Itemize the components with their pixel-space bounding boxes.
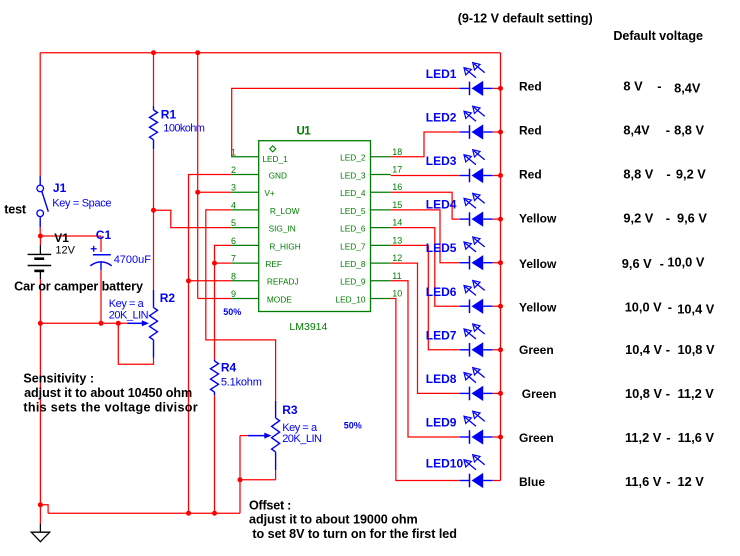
- junction R1-R2 / SIG_IN: [151, 208, 156, 213]
- label J1: [53, 181, 67, 195]
- U1 pin 14 stub: [371, 227, 391, 229]
- svg-text:Red: Red: [519, 80, 542, 94]
- label R3: [282, 403, 298, 417]
- svg-text:SIG_IN: SIG_IN: [269, 224, 296, 234]
- label Sensitivity line2: [24, 386, 192, 400]
- LED10: [460, 455, 493, 488]
- wire pin12 to LED8: [391, 263, 460, 393]
- label voltage row 5 high: [667, 254, 704, 269]
- svg-text:-: -: [666, 123, 670, 138]
- LED2: [460, 106, 493, 139]
- label voltage row 10 low: [625, 474, 662, 489]
- label voltage row 3 low: [623, 167, 653, 182]
- label color row 6: [519, 301, 557, 315]
- junction top rail / R1 top: [151, 50, 156, 55]
- svg-text:LED_8: LED_8: [340, 259, 366, 269]
- label LED6: [426, 285, 457, 299]
- ground: [31, 524, 49, 542]
- svg-text:Car or camper battery: Car or camper battery: [14, 280, 143, 294]
- wire V+ to pin3: [198, 191, 232, 193]
- label voltage row 10 high: [678, 474, 705, 489]
- svg-text:-: -: [657, 79, 661, 94]
- wire R_HIGH to REF: [215, 245, 232, 263]
- wire V+ vertical: [197, 53, 199, 299]
- wire left rail upper (to J1): [39, 53, 41, 176]
- junction REF node: [212, 261, 217, 266]
- svg-text:LED7: LED7: [426, 328, 457, 342]
- svg-text:LED4: LED4: [426, 198, 457, 212]
- svg-text:10,0 V: 10,0 V: [625, 300, 662, 315]
- pin label R_LOW: [270, 206, 300, 216]
- junction left rail / ground: [38, 502, 43, 507]
- svg-text:9: 9: [231, 289, 236, 299]
- label Offset line2: [249, 513, 418, 527]
- LED9: [460, 411, 493, 444]
- label LED2: [426, 111, 457, 125]
- pin label REF: [265, 259, 282, 269]
- pin label LED_7: [340, 241, 366, 251]
- junction rail / LED4: [498, 217, 503, 222]
- svg-text:Offset :: Offset :: [249, 499, 291, 513]
- svg-text:2: 2: [231, 165, 236, 175]
- svg-text:this sets the voltage divisor: this sets the voltage divisor: [23, 401, 198, 415]
- svg-text:LED8: LED8: [426, 372, 457, 386]
- pin number 1: [231, 147, 236, 157]
- pin label LED_4: [340, 188, 366, 198]
- label 4700uF: [114, 254, 152, 266]
- svg-text:LED3: LED3: [426, 154, 457, 168]
- svg-text:8: 8: [231, 271, 236, 281]
- U1 pin 15 stub: [371, 209, 391, 211]
- label R3 50%: [344, 421, 362, 431]
- junction top rail / V+ branch: [195, 50, 200, 55]
- label test: [4, 203, 27, 217]
- label LED1: [426, 67, 457, 81]
- svg-text:-: -: [666, 474, 670, 489]
- svg-text:100kohm: 100kohm: [163, 123, 204, 135]
- svg-text:6: 6: [231, 236, 236, 246]
- svg-text:8,4V: 8,4V: [674, 81, 701, 96]
- U1 pin 10 stub: [371, 298, 391, 300]
- label color row 2: [519, 124, 542, 138]
- svg-text:-: -: [666, 430, 670, 445]
- wire R2 bottom loop: [118, 323, 153, 364]
- U1 pin 9 stub: [231, 298, 259, 300]
- label R1: [161, 107, 177, 121]
- wire LED10 to rail: [493, 480, 501, 482]
- wire pin15 to LED5: [391, 210, 460, 263]
- junction rail / LED8: [498, 391, 503, 396]
- wire bottom jog: [40, 505, 48, 513]
- label LM3914: [289, 321, 327, 333]
- junction rail / LED5: [498, 260, 503, 265]
- label LED8: [426, 372, 457, 386]
- label voltage row 4 high: [677, 211, 707, 226]
- svg-text:Green: Green: [519, 431, 554, 445]
- svg-text:11: 11: [392, 271, 401, 281]
- wire LED5 to rail: [493, 262, 501, 264]
- wire LED2 to rail: [493, 131, 501, 133]
- wire divider horizontal: [40, 322, 130, 324]
- svg-text:10,8 V: 10,8 V: [678, 342, 715, 357]
- U1 pin 1 stub: [231, 156, 259, 158]
- label Offset line1: [249, 499, 291, 513]
- svg-text:13: 13: [392, 235, 402, 245]
- label 12V: [55, 244, 75, 256]
- svg-text:8,8 V: 8,8 V: [674, 123, 704, 138]
- svg-text:LED_5: LED_5: [340, 206, 366, 216]
- label Sensitivity line1: [23, 372, 94, 386]
- LED6: [460, 280, 493, 314]
- svg-text:11,6 V: 11,6 V: [625, 474, 662, 489]
- wire battery node to C1: [40, 235, 101, 237]
- op-amp U1 body: [259, 141, 371, 312]
- wire ground stub: [39, 505, 41, 524]
- wire LED6 to rail: [493, 305, 501, 307]
- label voltage row 7 high: [678, 342, 715, 357]
- label V1: [54, 231, 69, 245]
- svg-text:LED5: LED5: [426, 241, 457, 255]
- label color row 8: [522, 387, 557, 401]
- svg-text:R1: R1: [161, 107, 177, 121]
- U1 pin 4 stub: [231, 209, 259, 211]
- label LED5: [426, 241, 457, 255]
- wire top power rail: [40, 52, 500, 54]
- pin label SIG_IN: [269, 224, 296, 234]
- wire LED9 to rail: [493, 436, 501, 438]
- svg-text:Blue: Blue: [519, 475, 545, 489]
- svg-text:LED_7: LED_7: [340, 241, 366, 251]
- junction GND / pin8: [186, 278, 191, 283]
- resistor R4: [211, 360, 219, 396]
- pin label LED_2: [340, 153, 366, 163]
- wire pin14 to LED6: [391, 228, 460, 307]
- wire R_LOW net to R3: [206, 210, 276, 401]
- svg-text:4700uF: 4700uF: [114, 254, 152, 266]
- resistor R1: [150, 106, 158, 150]
- pin label LED_3: [340, 170, 366, 180]
- svg-text:-: -: [660, 256, 664, 271]
- junction V+ / pin3: [195, 190, 200, 195]
- LED4: [460, 193, 493, 226]
- label voltage row 5 dash: [660, 256, 664, 271]
- wire R4 bottom to rail: [214, 395, 216, 513]
- svg-text:4: 4: [231, 200, 236, 210]
- label color row 7: [519, 343, 554, 357]
- U1 pin 17 stub: [371, 174, 391, 176]
- label voltage row 6 low: [625, 300, 662, 315]
- svg-text:15: 15: [392, 200, 402, 210]
- wire pin1 to LED1: [232, 88, 460, 156]
- label voltage row 2 low: [623, 123, 650, 138]
- label color row 3: [519, 168, 542, 182]
- svg-text:LED_2: LED_2: [340, 153, 366, 163]
- label Car or camper battery: [14, 280, 143, 294]
- svg-text:R_HIGH: R_HIGH: [269, 241, 300, 251]
- junction left rail / divider wire: [38, 321, 43, 326]
- pin label LED_6: [340, 224, 366, 234]
- label LED4: [426, 198, 457, 212]
- pin number 13: [392, 235, 402, 245]
- svg-text:5: 5: [231, 218, 236, 228]
- LED5: [460, 237, 493, 270]
- label voltage row 7 dash: [666, 342, 670, 357]
- wire pin11 to LED9: [391, 281, 460, 437]
- pin label LED_5: [340, 206, 366, 216]
- label LED9: [426, 416, 457, 430]
- R2 wiper arrow: [128, 320, 150, 326]
- svg-text:V1: V1: [54, 231, 69, 245]
- svg-text:5.1kohm: 5.1kohm: [221, 376, 262, 388]
- pin number 7: [231, 254, 236, 264]
- svg-text:LED6: LED6: [426, 285, 457, 299]
- label color row 5: [519, 257, 557, 271]
- wire pin8 REFADJ to GND net: [189, 280, 232, 282]
- pin label REFADJ: [267, 277, 299, 287]
- pin number 6: [231, 236, 236, 246]
- svg-text:R_LOW: R_LOW: [270, 206, 300, 216]
- label color row 9: [519, 431, 554, 445]
- svg-text:LED9: LED9: [426, 416, 457, 430]
- svg-text:LED2: LED2: [426, 111, 457, 125]
- label voltage row 8 dash: [666, 386, 670, 401]
- svg-text:50%: 50%: [223, 307, 241, 317]
- wire LED1 to rail: [493, 87, 501, 89]
- label voltage row 9 high: [678, 430, 715, 445]
- wire R1 to R2: [153, 149, 155, 290]
- label voltage row 3 dash: [666, 167, 670, 182]
- label voltage row 1 dash: [657, 79, 661, 94]
- LED7: [460, 324, 493, 357]
- wire LED4 to rail: [493, 218, 501, 220]
- U1 pin 3 stub: [231, 191, 259, 193]
- svg-text:U1: U1: [297, 125, 312, 137]
- wire SIG_IN net: [154, 210, 232, 227]
- label voltage row 8 high: [678, 386, 715, 401]
- U1 pin 13 stub: [371, 244, 391, 246]
- pin number 16: [392, 182, 402, 192]
- wire REF net to R4: [214, 263, 216, 360]
- svg-text:Default voltage: Default voltage: [613, 29, 703, 43]
- pin number 18: [392, 147, 402, 157]
- U1 pin 7 stub: [231, 262, 259, 264]
- label LED3: [426, 154, 457, 168]
- wire left rail lower: [39, 323, 41, 505]
- pin number 2: [231, 165, 236, 175]
- svg-text:-: -: [666, 167, 670, 182]
- pin number 9: [231, 289, 236, 299]
- svg-text:10,8 V: 10,8 V: [625, 386, 662, 401]
- label voltage row 8 low: [625, 386, 662, 401]
- svg-text:REFADJ: REFADJ: [267, 277, 299, 287]
- label voltage row 4 low: [623, 211, 653, 226]
- svg-text:-: -: [666, 342, 670, 357]
- pin number 14: [392, 218, 402, 228]
- switch J1: [37, 176, 48, 227]
- label voltage row 1 high: [674, 81, 701, 96]
- svg-text:LED_3: LED_3: [340, 170, 366, 180]
- svg-text:MODE: MODE: [267, 294, 292, 304]
- label Key = Space: [52, 198, 111, 210]
- U1 pin 5 stub: [231, 227, 259, 229]
- svg-text:LED_9: LED_9: [340, 277, 366, 287]
- label R2 20K_LIN: [109, 310, 149, 322]
- U1 pin 2 stub: [231, 174, 259, 176]
- pin number 15: [392, 200, 402, 210]
- wire R3 bottom stub: [275, 470, 277, 480]
- svg-text:14: 14: [392, 218, 402, 228]
- U1 pin 12 stub: [371, 262, 391, 264]
- pin label GND: [269, 170, 287, 180]
- svg-text:LED10: LED10: [426, 457, 464, 471]
- svg-text:REF: REF: [265, 259, 282, 269]
- svg-text:20K_LIN: 20K_LIN: [109, 310, 149, 322]
- label LED7: [426, 328, 457, 342]
- svg-text:Sensitivity :: Sensitivity :: [23, 372, 94, 386]
- junction C1 / divider wire: [99, 321, 104, 326]
- svg-text:J1: J1: [53, 181, 67, 195]
- label 100kohm: [163, 123, 204, 135]
- wire right LED rail: [500, 53, 502, 481]
- label R3 Key = a: [282, 422, 318, 434]
- label U1: [297, 125, 312, 137]
- pin label R_HIGH: [269, 241, 300, 251]
- svg-text:Red: Red: [519, 168, 542, 182]
- U1 pin 18 stub: [371, 156, 391, 158]
- LED8: [460, 368, 493, 401]
- svg-text:adjust it to about 19000 ohm: adjust it to about 19000 ohm: [249, 513, 418, 527]
- svg-text:3: 3: [231, 183, 236, 193]
- svg-text:-: -: [666, 386, 670, 401]
- junction rail / LED6: [498, 304, 503, 309]
- wire bottom ground rail: [48, 512, 240, 514]
- pin label V+: [264, 188, 275, 198]
- svg-text:18: 18: [392, 147, 402, 157]
- label C1: [96, 228, 112, 242]
- junction rail / LED3: [498, 173, 503, 178]
- svg-text:8,8 V: 8,8 V: [623, 167, 653, 182]
- svg-text:LED_1: LED_1: [262, 154, 288, 164]
- pin label LED_10: [336, 294, 366, 304]
- label voltage row 3 high: [676, 167, 706, 182]
- wire pin13 to LED7: [391, 245, 460, 349]
- wire battery to lower-left node: [39, 279, 41, 323]
- junction rail / LED7: [498, 347, 503, 352]
- label R2 50%: [223, 307, 241, 317]
- wire R3 wiper vertical: [239, 436, 241, 480]
- label voltage row 9 dash: [666, 430, 670, 445]
- wire pin18 to LED2: [391, 132, 460, 157]
- U1 pin 8 stub: [231, 280, 259, 282]
- wire C1 top lead: [100, 236, 102, 252]
- svg-text:20K_LIN: 20K_LIN: [282, 433, 322, 445]
- pin number 12: [392, 253, 402, 263]
- potentiometer R3: [272, 401, 280, 470]
- svg-text:10,4 V: 10,4 V: [677, 302, 714, 317]
- svg-text:test: test: [4, 203, 27, 217]
- wire R1 top lead: [153, 53, 155, 106]
- U1 pin 6 stub: [231, 244, 259, 246]
- LED3: [460, 150, 493, 183]
- svg-text:(9-12 V default setting): (9-12 V default setting): [458, 11, 593, 25]
- pin number 3: [231, 183, 236, 193]
- junction R3 bottom node: [238, 477, 243, 482]
- svg-text:GND: GND: [269, 170, 287, 180]
- wire C1 bottom lead: [100, 270, 102, 323]
- svg-text:12 V: 12 V: [678, 474, 705, 489]
- svg-text:Green: Green: [519, 343, 554, 357]
- svg-text:9,6 V: 9,6 V: [622, 256, 652, 271]
- junction divider / R2 loop: [116, 321, 121, 326]
- svg-text:7: 7: [231, 254, 236, 264]
- label Offset line3: [252, 527, 457, 541]
- pin label LED_9: [340, 277, 366, 287]
- svg-text:17: 17: [392, 165, 402, 175]
- label R3 20K_LIN: [282, 433, 322, 445]
- wire pin10 to LED10: [391, 299, 460, 481]
- svg-text:LM3914: LM3914: [289, 321, 327, 333]
- svg-text:1: 1: [231, 147, 236, 157]
- pin number 4: [231, 200, 236, 210]
- svg-text:9,2 V: 9,2 V: [623, 211, 653, 226]
- label voltage row 10 dash: [666, 474, 670, 489]
- label Sensitivity line3: [23, 401, 198, 415]
- label voltage row 9 low: [625, 430, 662, 445]
- svg-text:-: -: [666, 211, 670, 226]
- svg-text:Key = Space: Key = Space: [52, 198, 111, 210]
- svg-text:Yellow: Yellow: [519, 257, 557, 271]
- wire GND net: [189, 175, 232, 514]
- label color row 10: [519, 475, 545, 489]
- svg-text:C1: C1: [96, 228, 112, 242]
- label color row 1: [519, 80, 542, 94]
- wire LED8 to rail: [493, 392, 501, 394]
- svg-text:12V: 12V: [55, 244, 75, 256]
- battery V1: [28, 245, 52, 279]
- potentiometer R2: [150, 290, 158, 358]
- svg-text:9,2 V: 9,2 V: [676, 167, 706, 182]
- svg-text:9,6 V: 9,6 V: [677, 211, 707, 226]
- R3 wiper arrow: [240, 433, 272, 439]
- svg-text:LED_4: LED_4: [340, 188, 366, 198]
- label voltage row 4 dash: [666, 211, 670, 226]
- svg-text:V+: V+: [264, 188, 275, 198]
- capacitor C1: [90, 246, 111, 270]
- svg-text:12: 12: [392, 253, 402, 263]
- label voltage row 1 low: [623, 79, 643, 94]
- svg-text:Yellow: Yellow: [519, 212, 557, 226]
- svg-text:10,4 V: 10,4 V: [625, 342, 662, 357]
- label voltage row 5 low: [622, 256, 652, 271]
- junction bottom rail / R4: [212, 511, 217, 516]
- svg-text:LED_10: LED_10: [336, 294, 366, 304]
- label LED10: [426, 457, 464, 471]
- label color row 4: [519, 212, 557, 226]
- junction rail / LED1: [498, 86, 503, 91]
- pin number 8: [231, 271, 236, 281]
- svg-text:R2: R2: [160, 291, 176, 305]
- wire REF to pin7: [215, 262, 232, 264]
- pin label LED_1: [262, 154, 288, 164]
- svg-text:LED1: LED1: [426, 67, 457, 81]
- label voltage row 2 high: [674, 123, 704, 138]
- svg-text:Key = a: Key = a: [109, 298, 145, 310]
- wire LED7 to rail: [493, 349, 501, 351]
- label voltage row 2 dash: [666, 123, 670, 138]
- svg-text:R3: R3: [282, 403, 298, 417]
- node battery plus junction: [38, 234, 43, 239]
- svg-text:50%: 50%: [344, 421, 362, 431]
